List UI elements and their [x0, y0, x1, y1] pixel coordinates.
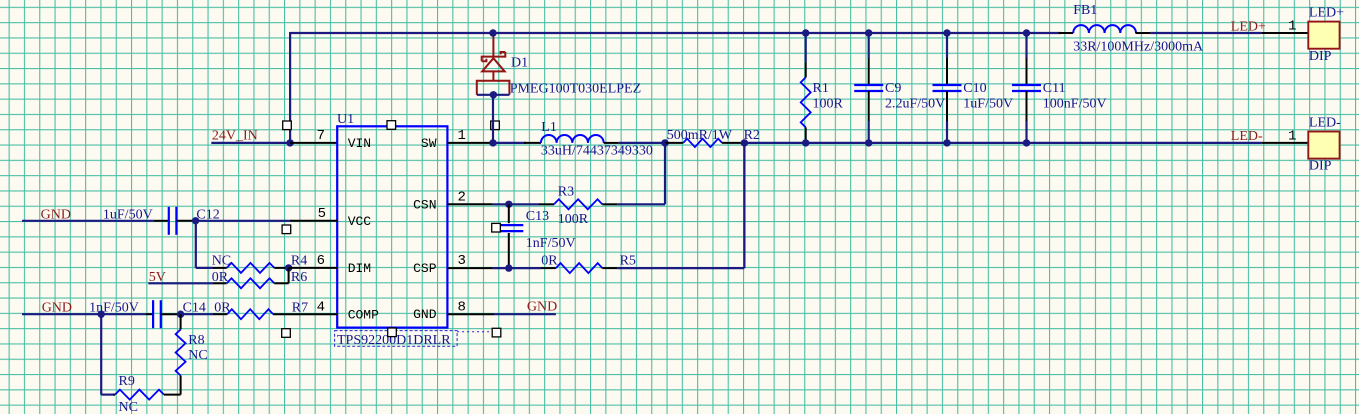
marker square D — [282, 225, 291, 234]
pin C12 right — [177, 220, 196, 222]
pin C14 right — [161, 313, 181, 315]
marker square F — [388, 328, 397, 337]
LED- designator — [1309, 115, 1341, 130]
net label 24V_IN — [212, 129, 258, 144]
pin R9 right — [164, 394, 181, 396]
svg-text:NC: NC — [119, 400, 138, 414]
resistor R5 0R — [556, 263, 602, 273]
wire to R4 — [196, 267, 213, 269]
pin R6 right — [274, 282, 288, 284]
wire C10 bottom — [946, 121, 948, 143]
pin number 5 — [318, 206, 326, 222]
pin number 8 — [458, 299, 466, 315]
wire L1 to R2 — [619, 142, 665, 144]
pin R7 right — [273, 313, 337, 315]
R3 designator — [558, 184, 574, 199]
marker square B — [387, 121, 396, 130]
pin name CSP — [413, 261, 437, 276]
connector LED- DIP — [1308, 132, 1339, 159]
svg-text:8: 8 — [458, 299, 466, 315]
pin R5 right — [602, 267, 617, 269]
wire autoposition dotted link — [457, 331, 491, 333]
svg-text:DIM: DIM — [348, 261, 371, 276]
svg-text:U1: U1 — [337, 112, 354, 127]
svg-text:NC: NC — [212, 253, 231, 268]
U1 comment TPS92200D1DRLR — [335, 331, 458, 348]
node 24V_IN junction — [286, 139, 293, 146]
resistor R6 0R — [227, 278, 275, 288]
svg-text:100R: 100R — [813, 96, 844, 111]
pin R4 left — [213, 267, 227, 269]
wire C10 top — [946, 33, 948, 58]
pin R2 left — [665, 142, 683, 144]
pin R9 left — [113, 394, 115, 396]
R7 value 0R — [214, 301, 231, 316]
C12 value 1uF/50V — [103, 207, 153, 222]
svg-text:1uF/50V: 1uF/50V — [103, 207, 153, 222]
pin R1 bottom — [805, 127, 807, 142]
pin R6 left — [213, 282, 227, 284]
R9 label NC — [119, 400, 138, 415]
wire riser R5 — [743, 143, 745, 268]
svg-text:R6: R6 — [291, 270, 307, 285]
LED+ footprint DIP — [1309, 49, 1332, 64]
pin J-LED+ stub — [1261, 32, 1308, 34]
capacitor C9 — [854, 85, 883, 91]
marker square E — [282, 329, 291, 338]
svg-text:DIP: DIP — [1309, 49, 1332, 64]
C10 designator — [963, 81, 986, 96]
pin C9 bottom — [868, 91, 870, 121]
LED- footprint DIP — [1309, 159, 1332, 174]
svg-text:6: 6 — [317, 253, 325, 269]
svg-text:NC: NC — [188, 348, 207, 363]
pin U1.6 DIM stub — [289, 267, 338, 269]
wire GND to C12 — [22, 220, 154, 222]
wire riser to top rail — [289, 32, 291, 143]
resistor R8 NC — [176, 330, 186, 376]
svg-text:2: 2 — [458, 189, 466, 205]
wire C11 top — [1025, 33, 1027, 58]
svg-text:CSP: CSP — [413, 261, 437, 276]
wire R6 riser — [288, 268, 290, 283]
pin U1.5 VCC stub — [290, 220, 337, 222]
wire riser R3 — [664, 143, 666, 204]
svg-text:4: 4 — [317, 299, 325, 315]
svg-text:GND: GND — [41, 207, 71, 222]
pin R2 right — [722, 142, 744, 144]
svg-text:R8: R8 — [188, 333, 204, 348]
pin U1.7 VIN stub — [290, 142, 337, 144]
R4 designator — [291, 253, 307, 268]
svg-text:R4: R4 — [291, 253, 307, 268]
wire GND8 — [494, 313, 556, 315]
C13 value 1nF/50V — [526, 236, 576, 251]
wire SW to D1 — [492, 96, 494, 143]
pin U1.1 SW stub — [447, 142, 492, 144]
node D1 top rail junction — [489, 29, 496, 36]
pin name GND — [413, 307, 437, 322]
node C9 bottom — [865, 139, 872, 146]
node C14 right junction — [177, 311, 184, 318]
pin number 3 — [458, 253, 466, 269]
svg-text:LED+: LED+ — [1309, 5, 1344, 20]
svg-text:1: 1 — [1288, 18, 1296, 34]
C9 value — [885, 96, 945, 111]
capacitor C12 — [169, 207, 177, 235]
C12 designator — [196, 207, 219, 222]
svg-text:1: 1 — [458, 128, 466, 144]
node C12 junction — [192, 217, 199, 224]
pin R3 right — [602, 203, 617, 205]
C11 value — [1043, 96, 1107, 111]
wire C14 to R7 — [181, 313, 213, 315]
svg-text:100nF/50V: 100nF/50V — [1043, 96, 1107, 111]
wire C12 node down — [195, 221, 197, 268]
resistor R9 NC — [115, 390, 164, 400]
C14 value 1nF/50V — [89, 301, 139, 316]
resistor R7 0R — [227, 309, 273, 319]
svg-text:C9: C9 — [885, 81, 901, 96]
pin L1 left — [524, 142, 541, 144]
wire 24V_IN input — [211, 142, 290, 144]
svg-text:D1: D1 — [511, 55, 528, 70]
pin number 6 — [317, 253, 325, 269]
svg-text:PMEG100T030ELPEZ: PMEG100T030ELPEZ — [510, 81, 641, 96]
pin number 1 LED- — [1288, 128, 1296, 144]
C14 designator — [183, 301, 206, 316]
wire C12 to VCC pin — [196, 220, 290, 222]
pin number 1 LED+ — [1288, 18, 1296, 34]
pin U1.2 CSN stub — [447, 203, 492, 205]
svg-text:500mR/1W: 500mR/1W — [667, 128, 733, 143]
C11 designator — [1043, 81, 1066, 96]
svg-text:5: 5 — [318, 206, 326, 222]
svg-text:L1: L1 — [541, 120, 557, 135]
node CSN junction — [505, 201, 512, 208]
node CSP junction — [505, 264, 512, 271]
capacitor C14 — [153, 300, 161, 328]
pin FB1 right — [1136, 32, 1151, 34]
pin C14 left stub — [145, 313, 153, 315]
svg-text:33uH/74437349330: 33uH/74437349330 — [541, 144, 653, 159]
pin R3 left — [539, 203, 554, 205]
node C11 bottom — [1023, 139, 1030, 146]
pin name VIN — [348, 136, 371, 151]
node C10 top — [943, 29, 950, 36]
svg-text:COMP: COMP — [348, 307, 379, 322]
capacitor C10 — [933, 85, 962, 91]
pin C9 top — [868, 58, 870, 85]
svg-text:C10: C10 — [963, 81, 986, 96]
net label LED- — [1231, 129, 1263, 144]
svg-text:0R: 0R — [541, 254, 558, 269]
svg-text:LED-: LED- — [1309, 115, 1341, 130]
R7 designator — [292, 301, 308, 316]
pin name DIM — [348, 261, 371, 276]
pin number 1 — [458, 128, 466, 144]
wire R1 top — [805, 33, 807, 62]
R8 designator — [188, 333, 204, 348]
svg-text:C11: C11 — [1043, 81, 1066, 96]
marker square G — [492, 328, 501, 337]
svg-text:R3: R3 — [558, 184, 574, 199]
wire CSN to C13 node — [493, 203, 509, 205]
R1 designator — [813, 81, 829, 96]
svg-text:GND: GND — [42, 301, 72, 316]
diode D1 schottky — [477, 34, 510, 95]
R4 label NC — [212, 253, 231, 268]
node C11 top — [1023, 29, 1030, 36]
svg-text:7: 7 — [317, 128, 325, 144]
svg-text:DIP: DIP — [1309, 159, 1332, 174]
node R2 right junction — [741, 139, 748, 146]
node R2 left junction — [661, 139, 668, 146]
svg-text:CSN: CSN — [413, 197, 436, 212]
pin FB1 left — [1059, 32, 1074, 34]
R6 designator — [291, 270, 307, 285]
net label GND top — [41, 207, 71, 222]
svg-text:1: 1 — [1288, 128, 1296, 144]
pin R7 left — [213, 313, 227, 315]
wire 5V — [148, 282, 213, 284]
U1 designator — [337, 112, 354, 127]
ferrite bead FB1 — [1073, 25, 1136, 33]
svg-text:2.2uF/50V: 2.2uF/50V — [885, 96, 945, 111]
marker square C13 — [492, 223, 501, 232]
pin C12 left — [154, 220, 169, 222]
svg-text:VIN: VIN — [348, 136, 371, 151]
pin J-LED- stub — [1261, 142, 1308, 144]
wire FB1 to LED+ — [1150, 32, 1261, 34]
pin C10 top — [946, 58, 948, 85]
svg-text:24V_IN: 24V_IN — [212, 129, 258, 144]
pin R1 top — [805, 62, 807, 77]
D1 designator — [511, 55, 528, 70]
IC U1 TPS92200 body — [337, 126, 447, 327]
wire SW to L1 — [493, 142, 526, 144]
svg-text:1nF/50V: 1nF/50V — [526, 236, 576, 251]
pin name COMP — [348, 307, 379, 322]
resistor R1 — [801, 77, 811, 127]
pin R8 top — [180, 314, 182, 329]
svg-text:R5: R5 — [620, 254, 636, 269]
wire D1 bottom — [477, 94, 510, 96]
node SW junction — [489, 139, 496, 146]
wire CSP to R5 — [509, 267, 541, 269]
R2 designator — [744, 128, 760, 143]
pin number 7 — [317, 128, 325, 144]
svg-text:C13: C13 — [526, 209, 549, 224]
net label LED+ — [1231, 19, 1266, 34]
svg-text:LED+: LED+ — [1231, 19, 1266, 34]
FB1 value — [1073, 39, 1204, 54]
svg-text:LED-: LED- — [1231, 129, 1263, 144]
pin U1.3 CSP stub — [447, 267, 492, 269]
wire CSN to R3 — [509, 203, 539, 205]
marker square A — [283, 121, 292, 130]
R1 value — [813, 96, 844, 111]
pin number 2 — [458, 189, 466, 205]
R5 value 0R — [541, 254, 558, 269]
resistor R3 100R — [554, 199, 602, 209]
node C14 left junction — [98, 311, 105, 318]
R5 designator — [620, 254, 636, 269]
wire R9 left riser — [100, 314, 102, 394]
node C10 bottom — [943, 139, 950, 146]
C10 value — [963, 96, 1013, 111]
connector LED+ DIP — [1308, 22, 1339, 49]
node DIM junction — [285, 264, 292, 271]
marker square C — [491, 121, 500, 130]
R8 label NC — [188, 348, 207, 363]
L1 value 33uH — [541, 144, 653, 159]
R6 label 0R — [212, 270, 229, 285]
pin C13 bottom — [508, 233, 510, 268]
wire C9 top — [868, 33, 870, 58]
node D1 anode — [490, 91, 497, 98]
svg-text:VCC: VCC — [348, 214, 372, 229]
pin C13 top — [508, 204, 510, 223]
net label GND bottom — [42, 301, 72, 316]
svg-text:SW: SW — [421, 136, 437, 151]
node R1 top — [802, 29, 809, 36]
svg-text:3: 3 — [458, 253, 466, 269]
pin R4 right — [274, 267, 288, 269]
wire R9 bottom left — [101, 394, 115, 396]
svg-text:R1: R1 — [813, 81, 829, 96]
wire R5 to riser — [617, 267, 744, 269]
D1 part PMEG100T030ELPEZ — [510, 81, 641, 96]
node C9 top — [865, 29, 872, 36]
pin name CSN — [413, 197, 436, 212]
svg-text:GND: GND — [413, 307, 437, 322]
wire GND to C14 — [22, 313, 101, 315]
pin C10 bottom — [946, 91, 948, 121]
pin C11 top — [1026, 58, 1028, 85]
pin number 4 — [317, 299, 325, 315]
pin U1.8 GND stub — [447, 313, 494, 315]
pin R5 left — [541, 267, 556, 269]
svg-text:100R: 100R — [558, 212, 589, 227]
pin name VCC — [348, 214, 372, 229]
R2 value 500mR/1W — [667, 128, 733, 143]
L1 designator — [541, 120, 557, 135]
wire C14 left — [101, 313, 145, 315]
wire CSP to node — [493, 267, 509, 269]
net label 5V — [149, 270, 166, 285]
capacitor C11 — [1012, 85, 1041, 91]
resistor R4 NC — [227, 263, 275, 273]
pin R8 bottom — [180, 376, 182, 395]
wire C9 bottom — [868, 121, 870, 143]
wire R3 to riser — [617, 203, 665, 205]
resistor R2 500mR — [683, 139, 722, 147]
capacitor C13 — [494, 225, 523, 231]
svg-text:FB1: FB1 — [1073, 3, 1097, 18]
R3 value 100R — [558, 212, 589, 227]
inductor L1 — [541, 135, 604, 143]
R9 designator — [119, 374, 135, 389]
C13 designator — [526, 209, 549, 224]
svg-text:R9: R9 — [119, 374, 135, 389]
net label GND pin8 — [527, 299, 557, 314]
pin L1 right — [604, 142, 619, 144]
pin name SW — [421, 136, 437, 151]
svg-text:1uF/50V: 1uF/50V — [963, 96, 1013, 111]
wire C11 bottom — [1025, 121, 1027, 143]
pin C11 bottom — [1026, 91, 1028, 121]
wire output row — [744, 142, 1261, 144]
wire top rail — [290, 32, 1061, 34]
svg-text:33R/100MHz/3000mA: 33R/100MHz/3000mA — [1073, 39, 1204, 54]
C9 designator — [885, 81, 901, 96]
node R1 bottom — [802, 139, 809, 146]
LED+ designator — [1309, 5, 1344, 20]
FB1 designator — [1073, 3, 1097, 18]
svg-text:GND: GND — [527, 299, 557, 314]
